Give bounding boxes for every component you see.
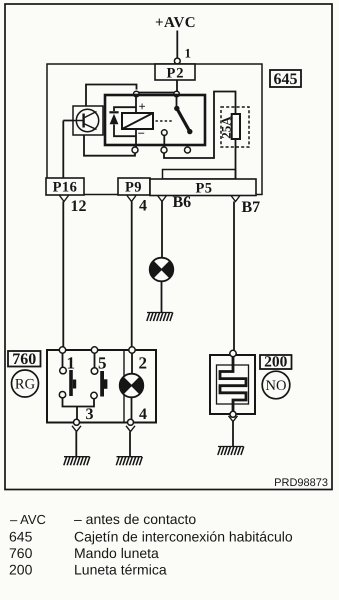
pin 4 triangle — [127, 196, 136, 202]
relay coil K1 — [122, 95, 153, 148]
pin B6 triangle — [158, 196, 167, 202]
wire relay top edge bus — [136, 92, 177, 94]
ground switch left — [64, 457, 90, 466]
terminal top 2 — [129, 347, 135, 353]
wire pin 12 to switch 760 — [62, 202, 64, 348]
wire pin 4 to switch 760 — [131, 202, 133, 348]
legend — [9, 511, 293, 578]
svg-text:– AVC: – AVC — [10, 512, 46, 527]
svg-text:200: 200 — [9, 562, 33, 578]
svg-text:645: 645 — [9, 529, 33, 545]
switch unit 760 box — [47, 350, 156, 423]
fuse F1 dashed holder — [221, 107, 249, 147]
svg-text:25A: 25A — [219, 116, 234, 139]
relay bottom terminal middle — [161, 147, 167, 153]
relay box U1 — [105, 95, 205, 145]
svg-text:Luneta térmica: Luneta térmica — [74, 562, 167, 578]
svg-text:P2: P2 — [166, 66, 184, 82]
wire lamp to ground — [161, 281, 163, 312]
wire transistor base to P16 — [63, 121, 73, 179]
ground lamp — [147, 313, 173, 322]
svg-text:5: 5 — [98, 354, 107, 373]
wire pin B7 to unit 200 — [233, 202, 235, 351]
svg-text:760: 760 — [12, 351, 36, 368]
svg-text:P5: P5 — [195, 181, 212, 197]
wire +AVC to P2 pin 1 — [176, 31, 178, 59]
svg-text:P9: P9 — [125, 180, 142, 196]
pin 3 triangle — [72, 426, 81, 432]
connector P16 — [46, 178, 84, 196]
wire transistor collector to coil+ — [86, 85, 137, 107]
relay coil top terminal — [134, 91, 140, 97]
svg-text:+: + — [139, 100, 146, 114]
svg-text:1: 1 — [185, 46, 192, 61]
contact switch pin1 — [59, 353, 76, 398]
svg-text:– antes de contacto: – antes de contacto — [74, 511, 196, 527]
svg-text:NO: NO — [266, 378, 287, 394]
terminal bottom 4 — [128, 419, 134, 425]
relay bottom terminal right — [185, 147, 191, 153]
svg-text:4: 4 — [139, 406, 147, 423]
svg-text:645: 645 — [274, 71, 298, 88]
label box 200 — [260, 354, 292, 371]
svg-text:Cajetín de interconexión habit: Cajetín de interconexión habitáculo — [74, 529, 293, 545]
svg-text:200: 200 — [264, 354, 288, 371]
mechanical link dashed — [156, 120, 173, 122]
terminal top 5 — [91, 347, 97, 353]
wire 200 to ground — [232, 422, 234, 447]
pin 1 terminal circle — [174, 58, 180, 64]
svg-text:PRD98873: PRD98873 — [274, 477, 328, 489]
svg-text:2: 2 — [139, 354, 148, 373]
heating element serpentine — [220, 357, 246, 412]
label box 645 — [270, 70, 301, 88]
pin 4 triangle — [126, 426, 135, 432]
unit 645 interconnection box — [47, 64, 262, 195]
svg-text:P16: P16 — [53, 180, 78, 196]
pin B7 triangle — [231, 196, 240, 202]
function circle NO — [262, 371, 290, 399]
svg-text:RG: RG — [15, 377, 36, 393]
P5 upper body — [163, 170, 236, 180]
svg-text:3: 3 — [86, 406, 94, 423]
pin 12 triangle — [60, 196, 69, 202]
terminal 200 top — [230, 350, 236, 356]
wire pin3 to ground — [75, 432, 77, 457]
svg-text:B6: B6 — [173, 194, 192, 211]
connector P2 — [155, 64, 195, 82]
pin triangle 200 — [229, 416, 238, 422]
partition 760 — [123, 350, 125, 423]
transistor Q1 symbol — [73, 109, 99, 131]
relay bottom terminal left — [132, 147, 138, 153]
ground switch right — [116, 457, 142, 466]
svg-text:760: 760 — [9, 545, 33, 561]
svg-text:Mando luneta: Mando luneta — [74, 545, 159, 561]
wire fuse to P5 — [235, 170, 237, 180]
wire pin B6 to lamp — [161, 202, 163, 258]
svg-text:1: 1 — [67, 354, 76, 373]
label box 760 — [8, 351, 41, 368]
wire pin4 to ground — [129, 432, 131, 457]
terminal top 1 — [59, 347, 65, 353]
heating element frame — [217, 365, 249, 404]
relay switch contact — [162, 95, 193, 148]
junction dot at P2/relay — [174, 91, 180, 97]
indicator lamp L1 — [150, 258, 174, 282]
fuse F1 element — [232, 114, 240, 139]
connector P9 — [118, 178, 150, 196]
function circle RG — [12, 370, 39, 397]
svg-text:4: 4 — [139, 198, 147, 215]
terminal 200 bottom — [230, 411, 236, 417]
connector P5 — [150, 179, 256, 197]
wire relay contact to fuse — [164, 92, 236, 170]
transistor Q1 box — [73, 106, 103, 135]
diode D1 — [109, 107, 136, 136]
heated window unit 200 box — [210, 355, 255, 414]
terminal bottom 3 — [74, 419, 80, 425]
svg-text:12: 12 — [71, 198, 87, 215]
wire P2 down to relay top — [176, 80, 178, 93]
svg-text:B7: B7 — [242, 199, 261, 216]
svg-text:−: − — [138, 126, 145, 141]
svg-text:+AVC: +AVC — [155, 15, 196, 31]
wire contacts to pin 3 — [63, 398, 95, 420]
wire transistor emitter to coil- — [84, 135, 135, 156]
contact switch pin5 — [91, 353, 108, 398]
ground 200 — [218, 447, 244, 456]
lamp in switch 760 — [120, 353, 144, 419]
